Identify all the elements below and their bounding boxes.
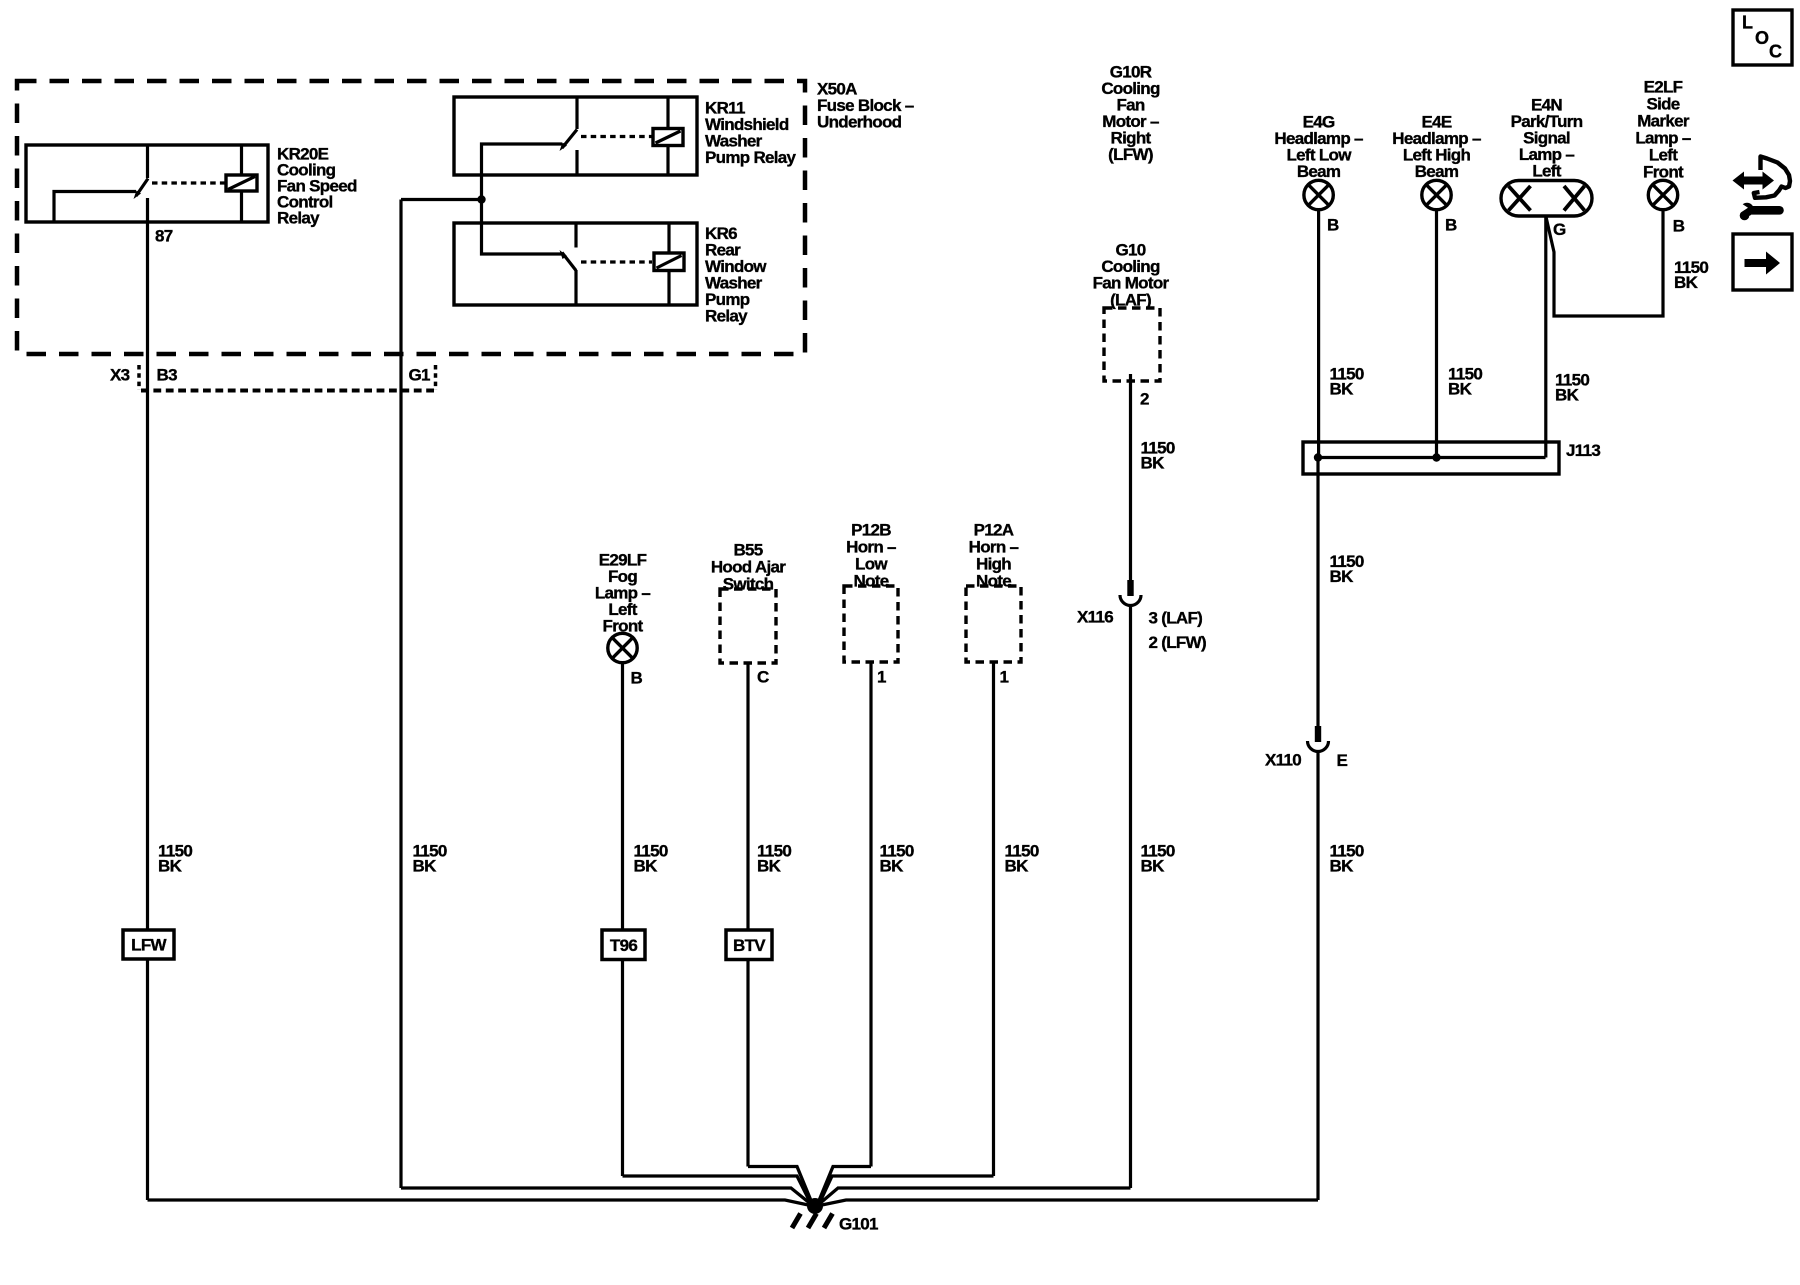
lamp E4G symbol	[1304, 180, 1333, 209]
svg-text:C: C	[757, 667, 769, 686]
wire E4G to J113	[1317, 210, 1320, 458]
svg-text:1: 1	[877, 667, 886, 686]
lamp E4N park/turn symbol (stadium with two X)	[1501, 181, 1592, 217]
takeout T96 box	[602, 930, 645, 960]
wire B55 to BTV	[746, 663, 749, 930]
connector separator dashes G1	[434, 365, 438, 390]
svg-text:X3: X3	[110, 365, 130, 384]
ground bus wires to G101	[148, 1167, 1319, 1207]
wire junction branch to left	[401, 198, 482, 201]
relay KR6 Rear Window Washer Pump Relay	[454, 222, 697, 305]
svg-text:C: C	[1769, 42, 1782, 62]
ground G101 symbol	[807, 1198, 823, 1214]
wire X110 down	[1316, 752, 1319, 1200]
svg-text:E: E	[1337, 751, 1348, 770]
fuse block X50A dashed outline	[17, 81, 805, 354]
svg-text:B3: B3	[157, 365, 178, 384]
inline connector X116	[1120, 580, 1141, 606]
svg-text:T96: T96	[610, 936, 637, 955]
component B55 dashed box	[720, 589, 776, 663]
svg-text:B: B	[1445, 215, 1457, 234]
lamp E4E symbol	[1422, 180, 1451, 209]
svg-text:2: 2	[1140, 389, 1149, 408]
wire 1150 BK from KR20E pin 87 down	[146, 198, 149, 930]
splice pack J113 box	[1303, 442, 1559, 474]
svg-text:BTV: BTV	[733, 936, 766, 955]
wire below BTV	[746, 960, 749, 1167]
inline connector X110	[1308, 726, 1329, 752]
svg-text:O: O	[1755, 28, 1769, 48]
wire E4E to J113	[1435, 210, 1438, 458]
svg-text:G: G	[1553, 220, 1566, 239]
svg-text:1: 1	[1000, 667, 1009, 686]
wire E4N branch to E2LF	[1546, 210, 1663, 316]
svg-text:B: B	[1673, 216, 1685, 235]
svg-text:G10RCoolingFanMotor –Right(LFW: G10RCoolingFanMotor –Right(LFW)	[1101, 62, 1160, 164]
svg-text:J113: J113	[1566, 441, 1600, 460]
lamp E2LF symbol	[1648, 180, 1677, 209]
wire 1150 BK from G1 down	[399, 200, 402, 1189]
icon vehicle navigation (double arrow, car outline, wrench)	[1733, 157, 1791, 221]
takeout LFW box	[123, 930, 174, 959]
wire P12A down	[992, 662, 995, 1176]
takeout BTV box	[726, 930, 772, 960]
wire below T96	[621, 960, 624, 1177]
lamp E29LF fog lamp symbol	[608, 633, 637, 662]
svg-text:B: B	[631, 668, 643, 687]
relay KR20E Cooling Fan Speed Control Relay	[26, 145, 268, 222]
wire E29LF to T96	[621, 663, 624, 930]
relay KR11 Windshield Washer Pump Relay	[454, 97, 697, 176]
icon box LOC	[1733, 10, 1792, 65]
svg-text:LFW: LFW	[131, 936, 167, 955]
junction node	[477, 195, 485, 203]
wire G10 to X116	[1129, 374, 1132, 580]
forward arrow glyph	[1745, 252, 1781, 275]
svg-text:G101: G101	[839, 1214, 878, 1233]
splice bus bar	[1318, 456, 1546, 459]
wire J113 to X110	[1316, 458, 1319, 727]
junction dot J113 left	[1314, 453, 1322, 461]
wire E4N to J113	[1544, 216, 1547, 458]
svg-text:X110: X110	[1265, 750, 1301, 769]
wire X116 down	[1129, 606, 1132, 1188]
icon box forward arrow	[1733, 234, 1792, 290]
connector separator dashes X3/B3	[137, 365, 141, 390]
svg-text:L: L	[1742, 13, 1753, 33]
component P12A dashed box	[966, 586, 1021, 662]
wire P12B down	[869, 662, 872, 1167]
svg-text:E29LFFogLamp –LeftFront: E29LFFogLamp –LeftFront	[595, 550, 651, 635]
svg-text:G1: G1	[409, 365, 431, 384]
wire 1150 BK below LFW	[146, 959, 149, 1200]
svg-text:B: B	[1327, 215, 1339, 234]
component G10 dashed box	[1104, 308, 1160, 381]
svg-text:87: 87	[155, 226, 173, 245]
connector boundary dotted line	[141, 389, 434, 393]
component P12B dashed box	[844, 586, 898, 662]
wire KR11 to KR6 vertical	[480, 175, 483, 223]
svg-text:3 (LAF): 3 (LAF)	[1149, 608, 1203, 627]
svg-text:2 (LFW): 2 (LFW)	[1149, 633, 1206, 652]
svg-text:X116: X116	[1077, 607, 1113, 626]
junction dot J113 middle	[1432, 453, 1440, 461]
